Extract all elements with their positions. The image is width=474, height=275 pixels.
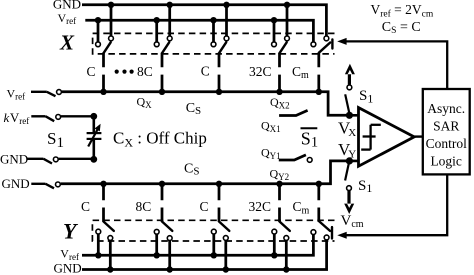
svg-text:8C: 8C xyxy=(136,199,152,214)
svg-text:SAR: SAR xyxy=(433,119,459,134)
svg-text:C: C xyxy=(87,64,96,79)
svg-text:CS = C: CS = C xyxy=(382,20,421,36)
svg-text:GND: GND xyxy=(2,176,30,191)
svg-text:C: C xyxy=(200,199,209,214)
svg-text:GND: GND xyxy=(54,261,82,275)
svg-text:S1: S1 xyxy=(359,88,373,105)
svg-text:Logic: Logic xyxy=(430,153,462,168)
svg-text:C: C xyxy=(201,64,210,79)
svg-text:32C: 32C xyxy=(249,199,272,214)
svg-text:C: C xyxy=(81,199,90,214)
svg-text:32C: 32C xyxy=(249,64,272,79)
svg-text:X: X xyxy=(59,31,75,55)
svg-text:8C: 8C xyxy=(137,64,153,79)
svg-text:GND: GND xyxy=(0,152,28,167)
svg-text:GND: GND xyxy=(53,0,81,12)
svg-text:Async.: Async. xyxy=(427,101,465,116)
svg-text:S1: S1 xyxy=(358,178,372,195)
svg-text:Control: Control xyxy=(426,136,468,151)
